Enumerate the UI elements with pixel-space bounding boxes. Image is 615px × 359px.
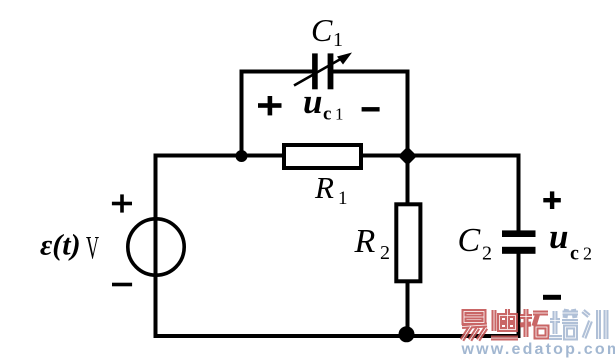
svg-text:1: 1 — [333, 29, 343, 51]
plus sign (uc2) — [543, 191, 561, 209]
watermark char tuo (red) — [520, 309, 548, 337]
svg-text:2: 2 — [482, 243, 492, 265]
wire: top branch left vertical — [240, 70, 244, 158]
wire: left vertical branch — [154, 154, 158, 339]
watermark char di (red) — [491, 309, 518, 338]
wire: right vertical below C2 — [517, 254, 521, 339]
svg-text:1: 1 — [335, 105, 344, 124]
watermark char pei (blue) — [549, 309, 578, 338]
svg-text:R: R — [354, 223, 376, 260]
svg-text:u: u — [303, 82, 322, 121]
svg-text:ε(t): ε(t) — [40, 229, 81, 262]
voltage source circle — [128, 219, 184, 275]
svg-text:C: C — [311, 12, 333, 48]
minus sign (uc2) — [543, 295, 561, 300]
watermark char xun (blue) — [583, 310, 606, 339]
capacitor C1 variable arrow — [294, 53, 352, 86]
node B (diamond) — [398, 147, 417, 166]
plus sign (uc1) — [258, 96, 282, 115]
watermark char yi (red) — [462, 312, 487, 341]
minus sign (source) — [112, 283, 132, 287]
watermark — [461, 309, 615, 358]
wire: top branch horizontal right of C1 — [333, 70, 410, 74]
resistor R1 — [284, 145, 361, 168]
node A — [236, 150, 248, 162]
wire: top branch horizontal left of C1 — [240, 70, 313, 74]
svg-text:2: 2 — [380, 242, 390, 264]
wire: middle vertical R2 bottom to bottom wire — [406, 282, 410, 338]
node C (bottom) — [399, 326, 415, 342]
svg-text:V: V — [86, 231, 99, 267]
wire: right vertical above C2 — [517, 154, 521, 231]
svg-text:1: 1 — [338, 188, 348, 209]
wire: top main horizontal — [154, 154, 521, 158]
svg-text:u: u — [549, 217, 568, 256]
svg-text:c: c — [570, 243, 579, 265]
minus sign (uc1) — [362, 107, 380, 111]
wire: middle vertical through node B to R2 top — [406, 70, 410, 205]
resistor R2 — [396, 204, 420, 281]
svg-text:C: C — [458, 222, 481, 259]
svg-text:www.edatop.com: www.edatop.com — [461, 341, 615, 358]
wire: bottom horizontal — [154, 334, 521, 338]
plus sign (source) — [112, 194, 132, 212]
svg-text:c: c — [323, 104, 331, 125]
capacitor C1 plates — [312, 53, 333, 89]
capacitor C2 plates — [502, 230, 536, 253]
svg-text:R: R — [314, 170, 334, 205]
svg-text:2: 2 — [583, 244, 592, 264]
